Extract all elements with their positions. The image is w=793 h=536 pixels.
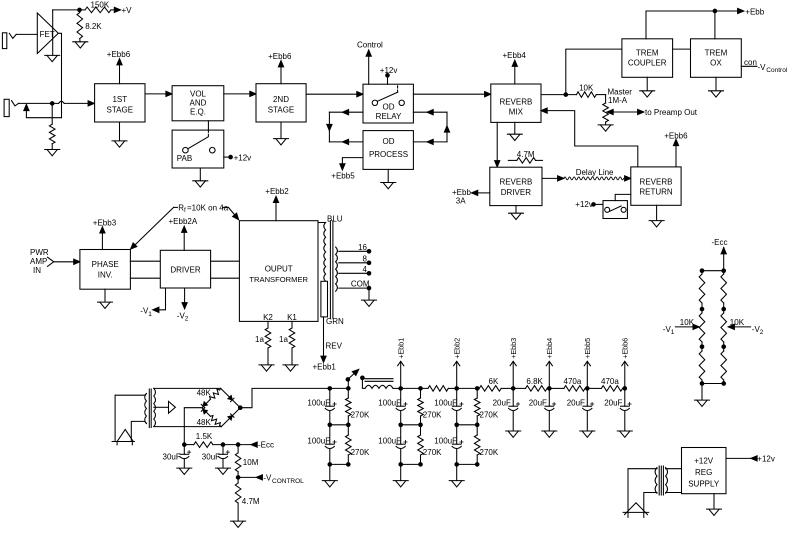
- arrow into REVERB MIX: [485, 92, 491, 97]
- block REVERB MIX: [491, 84, 541, 122]
- svg-text:RELAY: RELAY: [376, 112, 402, 121]
- wire COM ground: [368, 288, 370, 300]
- svg-text:VOL: VOL: [190, 89, 207, 98]
- arrow into VOL: [166, 91, 172, 96]
- wire plug to primary bottom: [131, 421, 145, 441]
- bridge diode upper-right: [228, 395, 234, 401]
- ground below input resistor: [45, 150, 60, 156]
- svg-text:AND: AND: [190, 98, 207, 107]
- capacitor 100uF filter-Ebb2 lower: [456, 425, 458, 444]
- arrow +Ebb3: [510, 361, 516, 366]
- bridge diode upper-left: [201, 402, 207, 408]
- wire 10K to pot: [596, 94, 605, 96]
- svg-text:REV: REV: [326, 342, 343, 351]
- wire +Ebb4 riser: [548, 362, 550, 389]
- FET buffer amp: [37, 13, 58, 54]
- node V2 upper: [722, 307, 726, 311]
- wire PT2 pri bottom: [644, 493, 657, 518]
- leader to PHASE INV: [133, 207, 173, 246]
- wire bias top junction: [702, 270, 724, 272]
- arrow -V2: [182, 303, 187, 309]
- arrow wiper -V2: [728, 324, 734, 329]
- svg-text:+Ebb6: +Ebb6: [664, 131, 688, 140]
- resistor 1a K1: [291, 321, 293, 328]
- block OD RELAY: [363, 84, 413, 123]
- block REVERB RETURN: [631, 167, 681, 205]
- ground filter-1: [322, 481, 337, 487]
- svg-text:4: 4: [363, 265, 368, 274]
- wire 150K to +V: [111, 9, 116, 11]
- svg-text:STAGE: STAGE: [107, 105, 134, 114]
- svg-text:100uF: 100uF: [434, 436, 457, 445]
- capacitor 20uF +Ebb4: [548, 388, 550, 406]
- resistor bus Ebb1-Ebb2: [401, 387, 428, 389]
- wire phase-driver upper: [130, 260, 160, 262]
- wire filter-Ebb1 ground: [400, 464, 402, 480]
- arrow -V1: [153, 307, 159, 312]
- node +V/8.2K junction: [78, 8, 82, 12]
- block DRIVER: [160, 250, 210, 288]
- svg-text:100uF: 100uF: [378, 436, 401, 445]
- OD RELAY switch: [372, 100, 377, 105]
- svg-text:270K: 270K: [423, 411, 442, 420]
- svg-text:-Ecc: -Ecc: [258, 441, 274, 450]
- block OD PROCESS: [363, 131, 413, 170]
- ground below 30uF second: [216, 468, 231, 474]
- wire PHASE INV ground: [104, 289, 106, 302]
- wire FET drain to +V rail: [52, 10, 54, 55]
- leader to transformer: [228, 207, 236, 216]
- svg-text:100uF: 100uF: [378, 398, 401, 407]
- svg-text:1a: 1a: [279, 335, 288, 344]
- svg-text:270K: 270K: [351, 411, 370, 420]
- arrow -Ecc: [251, 442, 257, 447]
- svg-text:PAB: PAB: [177, 154, 192, 163]
- input jack J1: [2, 33, 6, 49]
- wire filter-1 mid junction: [330, 424, 349, 426]
- wire VOL to 2ND: [224, 93, 251, 95]
- wire -Ecc line: [213, 444, 251, 446]
- svg-text:DRIVER: DRIVER: [170, 265, 200, 274]
- OT primary winding: [318, 222, 326, 224]
- resistor 4.7M feedback: [508, 159, 517, 161]
- svg-text:Delay Line: Delay Line: [576, 168, 614, 177]
- svg-text:2: 2: [185, 316, 189, 323]
- wire bridge neg tap: [184, 408, 202, 445]
- wire +12v out: [726, 457, 751, 459]
- wire 1ST to VOL: [145, 93, 167, 95]
- wire REVERB MIX ground: [514, 122, 516, 134]
- wiper -V1: [675, 326, 693, 328]
- wire REVERB DRIVER ground: [515, 206, 517, 213]
- svg-text:GRN: GRN: [326, 317, 344, 326]
- wire standby to choke: [362, 378, 365, 389]
- wire 2ND ground: [280, 122, 282, 138]
- wire +Ebb4 feed: [514, 64, 516, 84]
- wire filter-1 bottom junction: [330, 463, 349, 465]
- svg-text:1M-A: 1M-A: [608, 96, 628, 105]
- svg-text:REVERB: REVERB: [499, 178, 532, 187]
- svg-text:16: 16: [358, 243, 367, 252]
- capacitor 30uF second: [222, 445, 224, 455]
- svg-text:4.7M: 4.7M: [517, 150, 535, 159]
- wire PT2 pri top: [628, 469, 657, 513]
- wire +Ebb5 tap: [342, 158, 363, 167]
- arrow loop right top: [427, 110, 433, 115]
- svg-text:-V: -V: [263, 474, 272, 483]
- svg-text:+Ebb3: +Ebb3: [509, 338, 518, 359]
- wire +Ebb2 riser: [456, 362, 458, 389]
- ground +Ebb5: [580, 431, 595, 437]
- mains plug 2: [625, 503, 648, 515]
- svg-text:1: 1: [671, 329, 675, 336]
- arrow into REVERB DRIVER: [495, 161, 500, 167]
- node +Ebb6 bus: [623, 387, 627, 391]
- svg-text:+12v: +12v: [234, 153, 252, 162]
- arrow +Ebb6 2nd: [278, 61, 283, 67]
- resistor 10M: [237, 445, 239, 453]
- svg-text:1.5K: 1.5K: [196, 432, 213, 441]
- wire input line: [19, 102, 59, 104]
- wire bias bottom junction: [702, 383, 724, 385]
- wire loop left top: [329, 111, 363, 113]
- resistor 270K filter-1 upper: [347, 388, 349, 398]
- wire -Vcontrol: [238, 476, 256, 478]
- wire +Ebb6 return: [675, 143, 677, 167]
- wire 1ST STAGE ground: [119, 122, 121, 141]
- OT tap COM: [339, 287, 369, 289]
- svg-text:Control: Control: [357, 41, 383, 50]
- arrow +Ebb6: [622, 361, 628, 366]
- svg-text:150K: 150K: [91, 1, 110, 10]
- arrow loop into input: [24, 104, 29, 110]
- svg-text:270K: 270K: [423, 448, 442, 457]
- svg-text:INV.: INV.: [98, 271, 113, 280]
- capacitor 30uF first: [183, 445, 185, 455]
- svg-text:OX: OX: [710, 59, 722, 68]
- arrow +Ebb: [738, 8, 744, 13]
- bias chain V2 upper: [723, 271, 725, 274]
- arrow wiper -V1: [693, 324, 699, 329]
- ground filter-Ebb2: [449, 481, 464, 487]
- wire Control: [368, 53, 370, 84]
- PT1 secondary winding: [154, 388, 156, 426]
- ground filter-Ebb1: [393, 481, 408, 487]
- wire filter-1 ground: [329, 464, 331, 480]
- wire switch to return: [615, 194, 631, 200]
- svg-text:270K: 270K: [351, 448, 370, 457]
- arrow into REVERB RETURN: [625, 176, 631, 181]
- svg-text:TREM: TREM: [705, 49, 728, 58]
- svg-text:+Ebb6: +Ebb6: [620, 338, 629, 359]
- svg-text:4.7M: 4.7M: [242, 497, 260, 506]
- svg-text:8: 8: [363, 254, 368, 263]
- arrow standby switch: [352, 367, 360, 375]
- ground below REVERB DRIVER: [509, 213, 524, 219]
- wire +Ebb2 feed: [275, 200, 277, 221]
- master pot wiper: [607, 109, 613, 114]
- pot Master 1M-A: [605, 95, 607, 103]
- ground below 2ND STAGE: [274, 139, 289, 145]
- arrow to preamp out: [638, 109, 644, 114]
- wire bridge output: [240, 388, 348, 407]
- pot 10K V1: [701, 311, 703, 313]
- svg-text:f: f: [184, 207, 186, 214]
- delay line coil: [564, 177, 624, 180]
- arrow +Ebb4: [512, 60, 517, 66]
- wire pwr amp in: [54, 261, 75, 263]
- wire plug to primary top: [115, 395, 145, 441]
- arrow +Ebb1 rev: [321, 356, 326, 362]
- PAB switch dashed link: [207, 130, 209, 136]
- svg-text:STAGE: STAGE: [268, 105, 295, 114]
- arrow +Ebb3A: [472, 190, 478, 195]
- bias chain V1 upper: [701, 271, 703, 274]
- svg-text:10M: 10M: [243, 458, 259, 467]
- arrow into 2ND STAGE: [250, 91, 256, 96]
- svg-text:AMP: AMP: [30, 257, 47, 266]
- block PHASE INV.: [80, 250, 130, 290]
- heater tap arrow: [154, 406, 168, 408]
- PT1 core: [148, 389, 150, 428]
- arrow -Vcontrol: [256, 475, 262, 480]
- svg-text:con: con: [744, 58, 757, 67]
- ground below reg supply: [707, 509, 722, 515]
- wire jack1 to FET: [16, 33, 37, 35]
- svg-text:30uF: 30uF: [202, 452, 220, 461]
- node filter-Ebb1 bus: [399, 387, 403, 391]
- mains plug 1: [117, 429, 133, 441]
- svg-text:+Ebb1: +Ebb1: [313, 363, 337, 372]
- wire mix to driver: [496, 122, 498, 162]
- svg-text:REVERB: REVERB: [499, 97, 532, 106]
- node +Ebb3 bus: [511, 387, 515, 391]
- svg-text:2: 2: [760, 329, 764, 336]
- svg-text:2ND: 2ND: [273, 95, 289, 104]
- block TREM OX: [691, 39, 742, 78]
- svg-text:+Ebb: +Ebb: [745, 7, 764, 16]
- ground below PAB: [193, 181, 208, 187]
- svg-text:+12V: +12V: [694, 456, 714, 465]
- node +Ebb4 bus: [548, 387, 552, 391]
- block reverb switch: [603, 201, 627, 219]
- resistor 6K: [457, 387, 480, 389]
- reverb switch contacts: [605, 207, 610, 212]
- svg-text:Control: Control: [766, 67, 788, 74]
- wire +Ebb6 feed 2nd: [280, 64, 282, 84]
- wire REV: [323, 317, 325, 359]
- wire +Ebb1 riser: [400, 362, 402, 389]
- arrow loop left top: [342, 110, 348, 115]
- node bridge output: [239, 406, 243, 410]
- svg-text:COUPLER: COUPLER: [628, 59, 667, 68]
- svg-text:+12v: +12v: [575, 200, 593, 209]
- wire TREM OX ground: [715, 77, 717, 90]
- wire bias ground: [701, 384, 703, 400]
- svg-text:+Ebb6: +Ebb6: [268, 52, 292, 61]
- arrow delay line in: [558, 176, 564, 181]
- svg-text:270K: 270K: [480, 448, 499, 457]
- wire +Ebb5 riser: [586, 362, 588, 389]
- block 2ND STAGE: [256, 84, 306, 122]
- block PAB: [172, 130, 224, 168]
- ground below REVERB RETURN: [649, 221, 664, 227]
- wire PAB +12v: [224, 156, 230, 158]
- PT2 secondary winding: [666, 468, 668, 494]
- ground bias chain: [695, 400, 710, 406]
- block +12V REG SUPPLY: [682, 448, 727, 494]
- arrow +Ebb2A: [182, 226, 187, 232]
- arrow +Ebb4: [546, 361, 552, 366]
- svg-text:+Ebb5: +Ebb5: [583, 338, 592, 359]
- svg-text:TRANSFORMER: TRANSFORMER: [249, 275, 308, 284]
- OT tap 16: [339, 250, 369, 252]
- block 1ST STAGE: [95, 84, 145, 122]
- wire OD RELAY to REVERB MIX: [413, 93, 485, 95]
- wire PT2 sec bottom: [666, 492, 682, 494]
- node -Vcontrol: [236, 476, 240, 480]
- wire +Ebb2A feed: [183, 230, 185, 251]
- resistor 8.2K: [79, 10, 81, 13]
- wire FET mix loop: [26, 109, 61, 118]
- wire loop left bottom: [329, 141, 363, 143]
- arrow +Ebb6: [117, 59, 122, 65]
- ground below 8.2K: [73, 42, 88, 48]
- OT secondary winding: [336, 247, 338, 291]
- svg-text:20uF: 20uF: [493, 398, 511, 407]
- wiper -V2: [732, 326, 751, 328]
- svg-text:3A: 3A: [456, 196, 466, 205]
- svg-text:6.8K: 6.8K: [526, 377, 543, 386]
- arrow leader phase: [129, 243, 137, 251]
- ground +Ebb4: [542, 431, 557, 437]
- bridge lower-right edge: [221, 408, 240, 427]
- svg-text:RETURN: RETURN: [639, 187, 673, 196]
- svg-text:20uF: 20uF: [567, 398, 585, 407]
- svg-text:100uF: 100uF: [434, 398, 457, 407]
- resistor 1a K2: [267, 321, 269, 328]
- jack J1 tip contact: [9, 33, 16, 38]
- node V1 upper: [700, 307, 704, 311]
- node V2 lower: [722, 345, 726, 349]
- block OUPUT TRANSFORMER: [239, 221, 318, 322]
- OD RELAY dashed link: [397, 84, 399, 92]
- ground below 30uF first: [177, 468, 192, 474]
- resistor 270K filter-Ebb1 lower: [420, 425, 422, 435]
- svg-text:1ST: 1ST: [112, 95, 127, 104]
- choke core: [365, 378, 393, 380]
- input jack J2: [4, 99, 9, 116]
- svg-text:+Ebb4: +Ebb4: [503, 51, 527, 60]
- wire +Ebb3 riser: [512, 362, 514, 389]
- bias chain V1 lower: [701, 348, 703, 351]
- arrow +Ebb3: [100, 227, 105, 233]
- wire +12v to switch: [594, 203, 604, 205]
- resistor 1.5K: [194, 442, 213, 448]
- svg-text:100uF: 100uF: [307, 398, 330, 407]
- arrow loop left down: [327, 124, 332, 130]
- jack J2 tip contact: [12, 101, 19, 106]
- arrow -Ecc bias: [721, 248, 726, 254]
- resistor 270K filter-Ebb2 upper: [476, 388, 478, 398]
- svg-text:+Ebb3: +Ebb3: [93, 219, 117, 228]
- svg-text:MIX: MIX: [509, 108, 524, 117]
- ground below K1: [283, 365, 298, 371]
- wire +Ebb6 feed: [119, 62, 121, 84]
- wire filter-Ebb2 bottom junction: [457, 463, 478, 465]
- ground below FET: [45, 55, 60, 61]
- svg-text:6K: 6K: [489, 377, 499, 386]
- svg-text:DRIVER: DRIVER: [501, 188, 531, 197]
- wire to 1.5K: [184, 444, 194, 446]
- svg-text:1a: 1a: [255, 335, 264, 344]
- wire TREM COUPLER ground: [646, 77, 648, 90]
- wire OD PROCESS ground: [387, 169, 389, 182]
- capacitor 100uF filter-1 lower: [329, 425, 331, 444]
- PT2 primary winding: [655, 468, 657, 494]
- arrow into REVERB MIX right: [541, 108, 547, 113]
- wire reverb return to mix: [541, 111, 638, 167]
- resistor 4.7M: [237, 477, 239, 483]
- wire filter-Ebb1 mid junction: [401, 424, 421, 426]
- svg-text:to Preamp Out: to Preamp Out: [645, 108, 698, 117]
- node +Ebb5 bus: [586, 387, 590, 391]
- OT tap 4: [339, 272, 369, 274]
- svg-text:+Ebb4: +Ebb4: [545, 338, 554, 359]
- node filter-1 bus: [328, 387, 332, 391]
- ground +Ebb6: [617, 431, 632, 437]
- arrow loop left bottom: [342, 139, 348, 144]
- input chevron: [48, 257, 54, 266]
- arrow +12v out: [751, 456, 757, 461]
- arrow loop right bottom: [427, 139, 433, 144]
- wire +Ebb6 riser: [624, 362, 626, 389]
- svg-text:REVERB: REVERB: [640, 177, 673, 186]
- ground below OD PROCESS: [381, 183, 396, 189]
- wire filter-Ebb2 ground: [456, 464, 458, 480]
- ground below REVERB MIX: [507, 134, 522, 140]
- node standby out: [361, 376, 365, 380]
- svg-text:BLU: BLU: [327, 214, 343, 223]
- svg-text:48K: 48K: [197, 388, 212, 397]
- wire filter-Ebb1 bottom junction: [401, 463, 421, 465]
- wire 2ND to OD RELAY: [306, 93, 357, 95]
- resistor 10K master: [576, 92, 596, 98]
- svg-text:100uF: 100uF: [307, 436, 330, 445]
- svg-text:SUPPLY: SUPPLY: [688, 480, 720, 489]
- PT2 core: [658, 466, 660, 495]
- ground below PHASE INV: [98, 302, 113, 308]
- wire +12v relay: [387, 75, 389, 84]
- svg-text:OD: OD: [383, 137, 395, 146]
- wire con output: [741, 65, 757, 67]
- arrow +Ebb5: [584, 361, 590, 366]
- arrow +Ebb1: [398, 361, 404, 366]
- pot 10K V2: [723, 311, 725, 313]
- node +12v relay: [386, 74, 390, 78]
- svg-text:-V: -V: [758, 63, 767, 72]
- wire loop right top: [413, 111, 447, 113]
- svg-text:E.Q.: E.Q.: [190, 107, 206, 116]
- svg-text:48K: 48K: [197, 418, 212, 427]
- OT tap 8: [339, 262, 369, 264]
- svg-text:470a: 470a: [564, 377, 582, 386]
- svg-text:+Ebb2: +Ebb2: [265, 187, 289, 196]
- arrow into OD RELAY: [357, 92, 363, 97]
- svg-text:TREM: TREM: [636, 49, 659, 58]
- OT core: [329, 221, 331, 319]
- node +12v reverb: [592, 203, 596, 207]
